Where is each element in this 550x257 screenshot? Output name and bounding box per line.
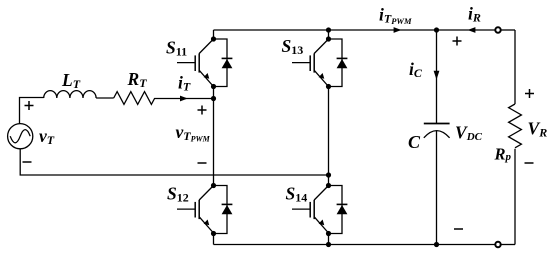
svg-text:LT: LT xyxy=(61,70,81,91)
svg-text:S13: S13 xyxy=(282,36,304,57)
svg-text:S11: S11 xyxy=(166,38,187,59)
svg-text:vTPWM: vTPWM xyxy=(176,122,211,144)
svg-text:RT: RT xyxy=(127,69,148,90)
svg-text:vT: vT xyxy=(39,126,55,147)
svg-text:C: C xyxy=(408,132,421,152)
svg-text:Rp: Rp xyxy=(494,145,512,164)
svg-text:iT: iT xyxy=(178,73,191,94)
svg-text:iTPWM: iTPWM xyxy=(379,5,412,27)
svg-text:iR: iR xyxy=(468,4,481,25)
svg-text:VR: VR xyxy=(528,119,548,140)
svg-text:VDC: VDC xyxy=(455,123,483,144)
svg-text:S14: S14 xyxy=(286,184,308,205)
svg-text:S12: S12 xyxy=(167,184,189,205)
svg-text:iC: iC xyxy=(409,59,423,80)
